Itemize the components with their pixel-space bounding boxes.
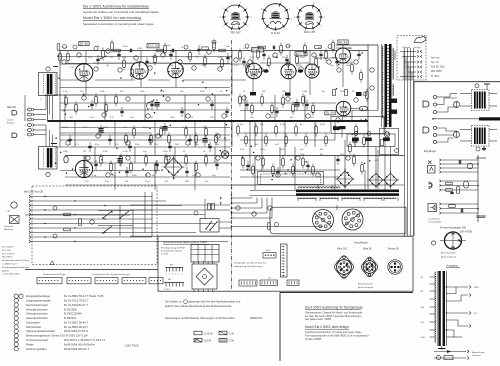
svg-text:Separated construction of moun: Separated construction of mounting and p…: [83, 22, 154, 26]
line matching section 2: [423, 126, 497, 152]
svg-text:4,7k: 4,7k: [70, 67, 74, 69]
svg-text:Selengleichrichter: Selengleichrichter: [26, 312, 48, 316]
svg-text:Ausgang: Ausgang: [446, 264, 458, 268]
svg-text:47k: 47k: [165, 181, 168, 183]
svg-text:Dkl: Dkl: [168, 279, 172, 281]
svg-text:250V: 250V: [260, 149, 265, 151]
svg-text:4,7k: 4,7k: [110, 117, 114, 119]
svg-text:vorberg shpa chtre jeder rang: vorberg shpa chtre jeder range: [234, 265, 263, 268]
tube base diagram EF86: [220, 2, 253, 34]
wire dash-dot chassis boundary: [231, 40, 233, 290]
mic riser bundle: [46, 96, 53, 147]
svg-text:Bv 41-5119.80-01 T: Bv 41-5119.80-01 T: [64, 303, 88, 307]
sockets enclosure box: [270, 207, 406, 234]
svg-text:B 25C90L: B 25C90L: [64, 316, 77, 320]
tube V4: [246, 63, 262, 79]
svg-text:jedoch ohne nähere Bezeichnun: jedoch ohne nähere Bezeichnung des Einba…: [164, 304, 232, 308]
svg-text:Selengleichrichter: Selengleichrichter: [26, 307, 48, 311]
svg-text:47k: 47k: [298, 65, 301, 67]
svg-text:500k: 500k: [300, 154, 304, 156]
svg-text:30μ: 30μ: [250, 117, 253, 119]
svg-text:Besprechung: Besprechung: [472, 351, 485, 354]
svg-text:The expanding line of the ElaA: The expanding line of the ElaA 305/1 is …: [305, 333, 369, 337]
svg-text:Eingang: Eingang: [7, 122, 14, 124]
svg-text:30μ: 30μ: [205, 181, 208, 183]
wire rail 163: [80, 162, 232, 164]
wire rail 56: [60, 56, 232, 58]
tube V6: [305, 64, 319, 78]
svg-text:0,5μ: 0,5μ: [130, 117, 134, 119]
wire verticals stage drops: [25, 45, 395, 210]
terminal strip 3: [287, 280, 299, 286]
svg-text:G-Schmelzeinsatz: G-Schmelzeinsatz: [26, 338, 49, 342]
svg-text:47k: 47k: [138, 65, 141, 67]
wire long mid line 155: [65, 155, 404, 157]
wire bottom rail 269: [25, 269, 158, 271]
vertical pin strip: [281, 244, 288, 277]
tube V8 EL34: [336, 101, 350, 115]
svg-text:Mikro1/2: Mikro1/2: [7, 106, 17, 109]
bias subcircuit below T3: [380, 127, 399, 190]
svg-text:Umlegungen mit offenem Dose be: Umlegungen mit offenem Dose bei: [234, 262, 266, 265]
svg-text:Beleuchtungslampe Osram E10 M: Beleuchtungslampe Osram E10 M 2353 12V 0…: [26, 334, 88, 338]
svg-text:Fernsprechadapter 306: Fernsprechadapter 306: [440, 227, 467, 230]
svg-text:( ) wiedergabe: ( ) wiedergabe: [428, 221, 442, 224]
tube label ECC83 a: [251, 48, 263, 52]
svg-text:Kurzbetriebsschaltung ELA V305: Kurzbetriebsschaltung ELA V305: [163, 240, 207, 244]
svg-text:Ela V 305/1 Ausführung für Ges: Ela V 305/1 Ausführung für Gestelleinbau: [83, 4, 149, 8]
terminal ladder: [29, 195, 228, 243]
bridge rectifier G4: [384, 173, 398, 187]
svg-text:( ) aufnahme: ( ) aufnahme: [428, 218, 441, 220]
svg-text:EL 34: EL 34: [339, 40, 347, 44]
ground symbol top: [482, 146, 486, 151]
svg-text:DIN 47306: DIN 47306: [460, 231, 473, 234]
aufnahme note: [428, 218, 442, 223]
svg-text:4,7k: 4,7k: [75, 144, 79, 146]
output terminal fan: [397, 36, 428, 81]
svg-text:Fremdspannung bei EVM: Fremdspannung bei EVM: [161, 247, 185, 250]
svg-text:0,5μ: 0,5μ: [95, 144, 99, 146]
svg-text:Bv 41-5802.55-12 T Haufe T13: Bv 41-5802.55-12 T Haufe T135: [64, 294, 104, 298]
wattage legend: [194, 331, 234, 342]
svg-text:2 W: 2 W: [229, 339, 234, 343]
svg-text:2: 2: [175, 274, 176, 276]
svg-text:1M: 1M: [106, 65, 109, 67]
tube label ECC83 b: [295, 52, 307, 56]
wire rail 170: [60, 170, 160, 172]
svg-text:ECC 83: ECC 83: [304, 30, 315, 34]
svg-text:1M: 1M: [83, 151, 86, 153]
relay footprint: [166, 265, 184, 276]
wire riser x368: [367, 45, 369, 189]
tube label ECC81: [147, 44, 159, 48]
wire section divider: [130, 235, 413, 237]
svg-text:Zusatzgeräte an der Verstärker: Zusatzgeräte an der Verstärkereinheit un…: [92, 273, 129, 276]
svg-text:Wieder-g: Wieder-g: [403, 46, 411, 49]
DIN connector: [440, 231, 466, 250]
monitor switch network: [53, 192, 152, 238]
circled position numbers: [62, 49, 374, 216]
svg-text:0,5μ: 0,5μ: [105, 181, 109, 183]
svg-text:Netzschalter: Netzschalter: [26, 325, 41, 329]
relay contacts: [194, 197, 232, 232]
terminal strip 1: [239, 280, 257, 286]
svg-text:B 230C250M4: B 230C250M4: [64, 312, 82, 316]
svg-text:Rela 100: Rela 100: [337, 248, 348, 251]
svg-text:0,5M: 0,5M: [160, 91, 165, 93]
svg-text:16Ω: 16Ω: [421, 307, 425, 309]
svg-text:Vorspann: Vorspann: [472, 354, 482, 357]
svg-text:(Ausführg): (Ausführg): [4, 228, 14, 231]
fernsprechadapter label: [440, 227, 473, 234]
tube V9 phase splitter: [75, 160, 92, 177]
speaker input rows: [428, 203, 478, 215]
svg-text:Spannungen und Richtwerte, Mes: Spannungen und Richtwerte, Messungen mit…: [165, 316, 235, 320]
svg-text:EF 86: EF 86: [231, 31, 239, 35]
pilot lamp: [221, 151, 229, 159]
output bottom terminals: [434, 350, 485, 360]
svg-text:4,7k: 4,7k: [85, 181, 89, 183]
tube label EL34 lower: [325, 111, 335, 115]
tube V3: [168, 62, 184, 78]
tube V7 EL34: [336, 48, 351, 63]
svg-text:B 25C30K: B 25C30K: [64, 307, 77, 311]
svg-text:Tonband 1: Tonband 1: [4, 226, 14, 228]
tube socket S2: [342, 209, 363, 230]
wire rail 87: [60, 87, 230, 89]
svg-text:Es gemäß den Reg St: Es gemäß den Reg St: [161, 250, 182, 253]
svg-text:gebenden die Pos der Fabrikati: gebenden die Pos der Fabrikationsliste u…: [189, 300, 241, 304]
svg-text:geführt: geführt: [2, 269, 9, 272]
svg-text:Meß 1502 Aud OE: Meß 1502 Aud OE: [24, 191, 43, 194]
svg-text:0,25μ: 0,25μ: [302, 91, 308, 93]
svg-text:Spannungswähischalter: Spannungswähischalter: [26, 329, 55, 333]
svg-text:Bv 41-5851.00-10.7: Bv 41-5851.00-10.7: [64, 325, 89, 329]
svg-text:30μ: 30μ: [170, 65, 173, 67]
svg-text:4: 4: [169, 274, 170, 276]
svg-text:Netz: Netz: [266, 249, 270, 252]
svg-text:DIN: 500P: DIN: 500P: [431, 71, 442, 73]
switch table: [191, 245, 219, 263]
svg-text:Combined construction of mixin: Combined construction of mixing and powe…: [305, 330, 362, 334]
svg-text:4f: 48np: 4f: 48np: [431, 76, 440, 78]
svg-text:45: 45: [458, 241, 460, 243]
svg-text:0,5μ: 0,5μ: [250, 57, 254, 59]
svg-text:Eingangsübertrager: Eingangsübertrager: [26, 294, 50, 298]
svg-text:Bv43-5056.000-02 T: Bv43-5056.000-02 T: [64, 347, 89, 351]
coupling blobs between preamp tubes: [250, 69, 303, 96]
junction bar right edge: [479, 117, 500, 120]
table design text box: [280, 292, 413, 361]
svg-text:1M: 1M: [110, 57, 113, 59]
svg-text:1M: 1M: [115, 144, 118, 146]
svg-text:Rela 80: Rela 80: [363, 248, 372, 251]
svg-text:Eingänge: Eingänge: [424, 149, 436, 153]
output taps fan: [446, 286, 480, 338]
wire HT thick bus: [48, 120, 369, 122]
mini connector: [263, 249, 276, 258]
svg-text:ca 680mV auf 7: ca 680mV auf 7: [2, 264, 18, 266]
svg-text:Die Zahlen im: Die Zahlen im: [165, 300, 182, 304]
svg-text:1M: 1M: [266, 65, 269, 67]
svg-text:bei 0,775mV: bei 0,775mV: [2, 253, 15, 255]
svg-text:for Ela 4 305/1: for Ela 4 305/1: [305, 337, 322, 341]
svg-text:500k: 500k: [215, 144, 219, 146]
svg-text:47k: 47k: [190, 117, 193, 119]
amplifier capacitors: [68, 45, 360, 177]
bridge rectifier G1: [165, 158, 183, 176]
wire rail 147: [55, 146, 230, 148]
svg-text:Ansicht Lötseite: Ansicht Lötseite: [358, 283, 374, 286]
svg-text:DIN 41571 1,25 250V T 0,63/1,1: DIN 41571 1,25 250V T 0,63/1,1T: [64, 338, 105, 342]
svg-text:E L 34: E L 34: [271, 31, 280, 35]
caption row small text: [43, 273, 129, 276]
aufnahme text block right: [431, 56, 446, 77]
wire horizontals short links: [25, 48, 404, 215]
svg-text:30000 Ω/V: 30000 Ω/V: [250, 316, 263, 320]
svg-text:Bv43-5054.000-08 Bv/Hv: Bv43-5054.000-08 Bv/Hv: [64, 342, 95, 346]
svg-text:Getrennter Aufbau von Frontwan: Getrennter Aufbau von Frontwand und Vers…: [83, 10, 159, 14]
wire top right rail 45: [336, 44, 378, 46]
transformer T5 output table: [421, 241, 447, 350]
svg-text:500k: 500k: [346, 65, 350, 67]
wire rail 95: [45, 94, 230, 96]
svg-text:0,5M: 0,5M: [137, 48, 142, 50]
socket view note: [358, 283, 374, 289]
svg-text:2: 2: [451, 235, 452, 237]
aux symbols tonband: [4, 202, 19, 231]
svg-text:Auf: neu: Auf: neu: [431, 56, 440, 59]
svg-text:figure of tag end: figure of tag end: [358, 286, 374, 289]
tube label EF86: [79, 41, 89, 45]
monitor dashed enclosure: [32, 186, 157, 265]
svg-text:Selengleichrichter: Selengleichrichter: [26, 316, 48, 320]
transformer T3 output: [382, 44, 398, 127]
tube V1 EF86: [75, 64, 93, 82]
kurzschluss note: [161, 247, 185, 256]
extra value labels: [70, 57, 350, 183]
svg-text:Schlußwiderstand in Farb-g: Schlußwiderstand in Farb-g: [2, 259, 30, 262]
svg-text:Ansicht Lötseite: Ansicht Lötseite: [441, 251, 457, 254]
svg-text:Bv42-0029.07-00 O: Bv42-0029.07-00 O: [64, 329, 88, 333]
mic input rows: [428, 159, 479, 174]
amplifier components: [59, 40, 369, 177]
fabrication note text: [164, 300, 263, 320]
svg-text:Netztransformator: Netztransformator: [26, 303, 48, 307]
wire top rail: [60, 50, 368, 52]
svg-text:100V: 100V: [421, 337, 426, 339]
rectifier footprint box: [192, 261, 217, 292]
svg-text:Auß 50: 125v: Auß 50: 125v: [431, 66, 446, 69]
svg-text:Rg 700mV: Rg 700mV: [2, 257, 13, 259]
svg-text:125V T(5/2): 125V T(5/2): [125, 343, 139, 347]
svg-text:500k: 500k: [186, 57, 190, 59]
svg-text:Fernh-g: Fernh-g: [414, 46, 421, 49]
svg-text:0,5M: 0,5M: [192, 175, 197, 177]
svg-text:47k: 47k: [155, 144, 158, 146]
svg-text:1M: 1M: [125, 181, 128, 183]
svg-text:Umschalter: Umschalter: [26, 320, 40, 324]
line input box: [414, 82, 500, 236]
tube socket S1: [313, 210, 334, 231]
svg-text:H 0- 325mV: H 0- 325mV: [2, 247, 14, 249]
svg-text:6,3V: 6,3V: [83, 127, 88, 129]
svg-text:Model Ela V 305/1 for rack mou: Model Ela V 305/1 for rack mounting: [83, 16, 141, 20]
tube V5 ECC83: [281, 64, 296, 79]
svg-text:Wiedereinband an Regler: Wiedereinband an Regler: [43, 274, 66, 276]
svg-text:500k: 500k: [270, 117, 274, 119]
svg-text:1: 1: [182, 274, 183, 276]
wire left riser: [47, 95, 49, 121]
connections box: [158, 236, 413, 291]
wire right cable runs: [405, 48, 414, 236]
transformer T1 input: [39, 67, 59, 101]
svg-text:fest gelten auch f 305/1: fest gelten auch f 305/1: [305, 317, 332, 321]
svg-text:Schaltvorgängeeinzelheiten: Schaltvorgängeeinzelheiten: [2, 266, 30, 269]
title text block: [83, 4, 159, 25]
svg-text:5: 5: [166, 274, 167, 276]
svg-text:Syn: 2x: Syn: 2x: [431, 62, 440, 64]
tube base diagram EL34: [259, 1, 293, 35]
svg-text:0,25 W: 0,25 W: [204, 331, 213, 335]
tube base diagram ECC83: [294, 3, 326, 35]
input jack Mikro2: [12, 133, 17, 138]
mic terminal fan lower: [25, 124, 47, 137]
svg-text:Pu 1,25V: Pu 1,25V: [2, 250, 12, 252]
svg-text:1 W: 1 W: [229, 331, 234, 335]
terminal strip 2: [260, 278, 278, 286]
socket Rela 80: [361, 257, 377, 276]
phone input rows: [429, 180, 478, 194]
svg-text:Relais: Relais: [26, 342, 34, 346]
note text mid box: [234, 262, 266, 268]
component value labels: [63, 45, 363, 177]
input jack Mikro1: [7, 106, 17, 124]
transformer T4 power: [250, 187, 399, 201]
dashed label boxes: [37, 277, 163, 283]
svg-text:3: 3: [172, 274, 173, 276]
svg-text:Bv 41-5857.00-40 T: Bv 41-5857.00-40 T: [64, 320, 89, 324]
svg-text:4,7k: 4,7k: [234, 65, 238, 67]
svg-text:Sicherungshalter: Sicherungshalter: [26, 347, 47, 351]
bridge rectifier G2: [337, 171, 353, 187]
svg-text:30μ: 30μ: [195, 144, 198, 146]
wire riser x378: [377, 45, 379, 110]
power wiring: [232, 121, 378, 189]
svg-text:6,3V: 6,3V: [240, 149, 245, 151]
svg-text:Ela 4 305/1 Ausführung im Tisc: Ela 4 305/1 Ausführung im Tischgehäuse: [305, 306, 363, 310]
svg-text:0,5 W: 0,5 W: [204, 339, 211, 343]
curved jumper hook: [147, 99, 155, 107]
top rail components: [57, 40, 332, 52]
socket labels: [337, 248, 399, 251]
svg-text:zusätzl.: zusätzl.: [7, 118, 14, 121]
el34 lower surround parts: [333, 89, 368, 130]
svg-text:1M: 1M: [152, 175, 155, 177]
power area nested boxes: [258, 172, 324, 185]
svg-text:350V: 350V: [320, 124, 325, 126]
left notes text: [2, 247, 30, 276]
tube label EL34 upper: [338, 40, 348, 44]
svg-text:Rel: Rel: [170, 265, 174, 267]
legend parts list: [14, 294, 105, 351]
ausgang heading: [446, 264, 460, 268]
wire rail 63: [65, 62, 230, 64]
wire el34 lower feed: [352, 110, 378, 112]
wire rail 127: [60, 127, 230, 129]
mic terminal fan upper: [25, 108, 47, 121]
svg-text:EL 34: EL 34: [326, 111, 334, 115]
filter capacitor bank: [331, 117, 395, 174]
svg-text:1M: 1M: [120, 91, 123, 93]
svg-text:1: 1: [178, 274, 179, 276]
svg-text:Ausgangsübertrager: Ausgangsübertrager: [26, 299, 51, 303]
svg-text:Bv 41-5713.75-02 T: Bv 41-5713.75-02 T: [64, 299, 89, 303]
svg-text:ECC 81: ECC 81: [148, 44, 159, 48]
lamp footprint: [164, 279, 184, 291]
svg-text:Messe 50: Messe 50: [388, 248, 399, 251]
svg-text:250V: 250V: [300, 57, 305, 59]
svg-text:figure of tag end: figure of tag end: [441, 256, 457, 259]
kurzschluss heading: [163, 240, 209, 244]
svg-text:Model Ela 4 305/1 table design: Model Ela 4 305/1 table design: [305, 325, 349, 329]
svg-text:0,5M: 0,5M: [123, 151, 128, 153]
bridge rectifier G3: [369, 173, 383, 187]
right bus vertical: [476, 155, 486, 222]
svg-text:1M: 1M: [150, 117, 153, 119]
socket Rela 100: [335, 256, 354, 279]
svg-text:30μ: 30μ: [330, 65, 333, 67]
svg-text:350V: 350V: [63, 127, 68, 129]
svg-text:0,25μ: 0,25μ: [243, 48, 249, 50]
svg-text:und OE: und OE: [161, 254, 169, 256]
line matching section 1: [423, 84, 497, 114]
svg-text:2 4 6 8: 2 4 6 8: [164, 289, 170, 291]
tube V2 ECC81: [131, 62, 148, 79]
ansicht note 2: [441, 251, 457, 258]
socket Messe 50: [388, 260, 402, 274]
svg-text:1: 1: [451, 246, 452, 248]
mid line: [433, 118, 479, 120]
svg-text:Anschlüsse: Anschlüsse: [354, 240, 368, 244]
svg-text:ca 12V; Rg 8740V: ca 12V; Rg 8740V: [2, 274, 20, 276]
transformer T2 input: [39, 144, 69, 177]
wire rail 135: [60, 134, 230, 136]
wire riser x60: [59, 51, 61, 148]
svg-text:+65V: +65V: [374, 160, 379, 162]
svg-text:ker fest. Die techn 305/1 trag: ker fest. Die techn 305/1 tragenden Beme…: [305, 314, 362, 318]
svg-text:0,5μ: 0,5μ: [88, 57, 92, 59]
bus fan wires to transformer taps: [231, 197, 323, 229]
svg-text:Gemeinsames Chassis für Misch-: Gemeinsames Chassis für Misch- und Kraft…: [305, 310, 363, 314]
svg-text:250V: 250V: [103, 127, 108, 129]
electrolytic stacked caps: [98, 99, 357, 166]
